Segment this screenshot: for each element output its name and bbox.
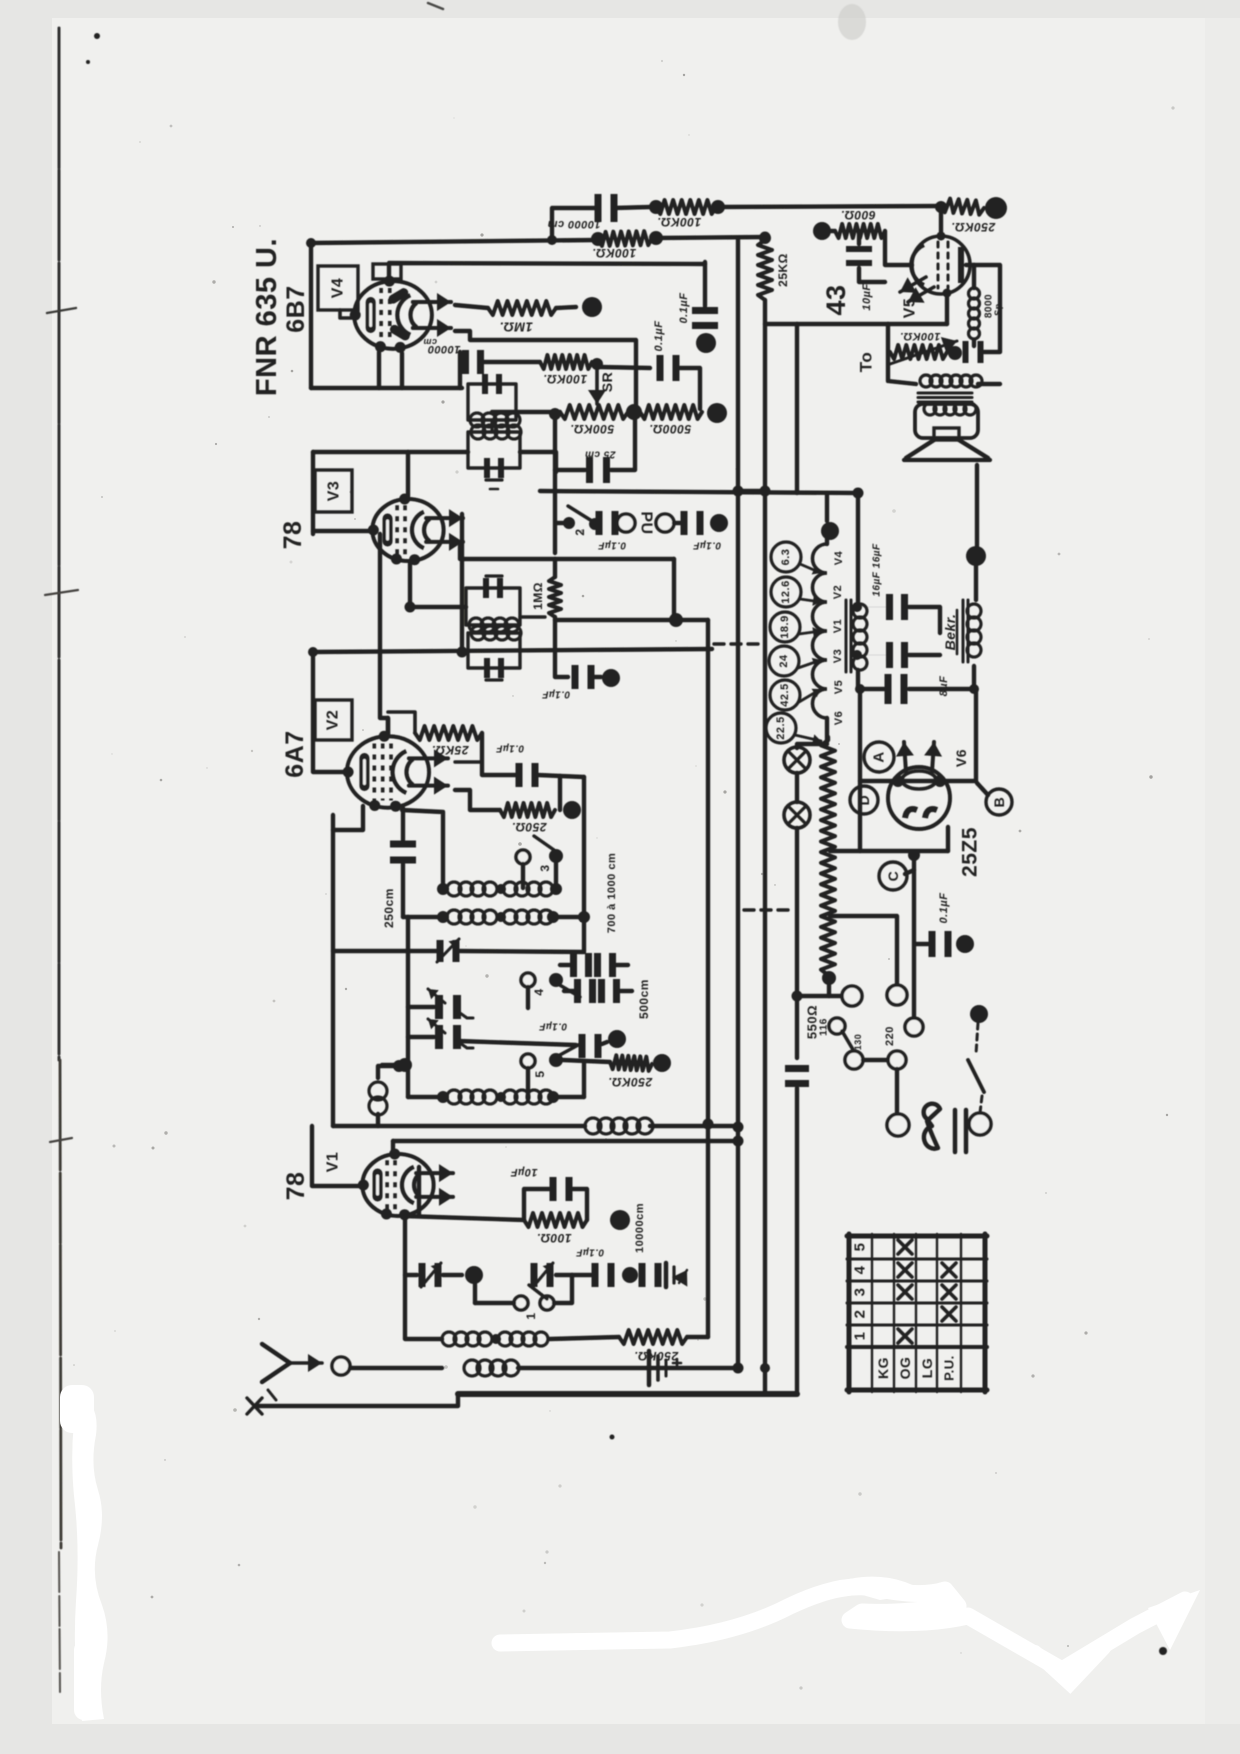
wire antenna row (350, 1360, 738, 1376)
resistor 250KΩ (osc grid) (563, 1055, 652, 1071)
svg-text:V2: V2 (832, 585, 844, 599)
wire heater feed (797, 324, 827, 521)
oscillator coil row 2 (403, 864, 590, 924)
label 250KΩ (top right) (951, 220, 996, 234)
voltage selector contact 220 (884, 1026, 906, 1069)
resistor 5000Ω (640, 405, 702, 419)
wire lamp link (795, 773, 799, 996)
wire selector link (863, 1058, 888, 1062)
wire lamps branch (797, 744, 827, 748)
wire H3 link (738, 489, 765, 493)
label 8µF (938, 676, 950, 697)
resistor 25KΩ (screen) (758, 232, 772, 300)
white-out squiggle (500, 1577, 1200, 1684)
svg-text:1MΩ: 1MΩ (531, 582, 545, 610)
svg-text:10µF: 10µF (861, 283, 873, 310)
svg-text:cm: cm (423, 337, 437, 347)
wire oscillator feed (582, 777, 586, 918)
wire V3 cathode (313, 529, 375, 533)
svg-text:3: 3 (852, 1288, 869, 1297)
terminal dot (AF) (602, 669, 620, 687)
svg-text:0.1µF: 0.1µF (575, 1247, 604, 1258)
label 250KΩ (antenna) (634, 1349, 679, 1363)
resistor 100KΩ (V4 grid) (540, 355, 603, 370)
svg-text:100KΩ.: 100KΩ. (900, 330, 941, 342)
voltage circle 12.6 (771, 577, 821, 607)
label 25cm (585, 449, 617, 460)
capacitor 10000cm (V4 grid) (462, 350, 540, 374)
table X marks (898, 1240, 956, 1343)
voltage selector contact 130 (845, 1034, 863, 1069)
switch 1 (475, 1275, 572, 1320)
V3 loop wire (311, 452, 315, 534)
capacitor 0.1µF (detector out) (692, 262, 718, 329)
switch 2 (gramophone) (556, 506, 592, 536)
wire selector down (887, 1069, 909, 1136)
labels 0.1µF 0.1µF (detector) (653, 293, 690, 352)
V3 label box (315, 470, 352, 512)
svg-text:1MΩ.: 1MΩ. (499, 320, 533, 335)
resistor 1MΩ (V4 plate) (455, 301, 576, 315)
svg-text:D: D (856, 795, 872, 806)
svg-text:250Ω.: 250Ω. (511, 820, 547, 834)
capacitor 0.1µF (AVC line) (600, 355, 700, 409)
svg-text:6.3: 6.3 (780, 549, 792, 566)
wire V1 grid (393, 1141, 738, 1152)
label 25KΩ (screen) (776, 253, 790, 287)
svg-text:C: C (885, 871, 901, 882)
svg-text:250KΩ.: 250KΩ. (951, 220, 996, 234)
svg-text:B: B (991, 797, 1007, 808)
terminal dot (osc pad) (608, 1030, 626, 1048)
wire V3 bottom pin (410, 563, 466, 607)
label 10µF (43) (861, 283, 873, 310)
svg-text:78: 78 (282, 1172, 310, 1201)
svg-text:116: 116 (819, 1018, 830, 1036)
wire grid row (458, 352, 462, 388)
resistor 100KΩ (top bus) (649, 200, 941, 214)
svg-text:25KΩ: 25KΩ (776, 253, 790, 287)
svg-text:25KΩ.: 25KΩ. (431, 743, 469, 757)
wire rectifier box right (974, 689, 978, 781)
antenna terminal (332, 1357, 350, 1375)
label 500cm (637, 979, 651, 1019)
speaker frame (915, 404, 978, 440)
table label KG (875, 1357, 891, 1379)
capacitor 0.1µF (mains) (915, 931, 974, 957)
capacitor 0.1µF (PU left) (596, 511, 619, 535)
svg-text:V1: V1 (832, 619, 844, 633)
label 250cm (382, 888, 396, 928)
variable capacitor gang b (408, 1019, 473, 1049)
tube V3 78 (368, 493, 463, 565)
resistor 550Ω ballast (821, 737, 836, 985)
electrolytic 16µF a (858, 594, 940, 633)
svg-text:550Ω: 550Ω (805, 1005, 820, 1039)
svg-text:KG: KG (875, 1357, 891, 1379)
label Bekr. (942, 610, 958, 654)
svg-text:V5: V5 (833, 680, 845, 694)
switch 5 (521, 1044, 580, 1097)
wire sw1 left drop (473, 1284, 477, 1303)
svg-text:100Ω.: 100Ω. (536, 1231, 571, 1245)
tube type label 43 (821, 284, 851, 315)
field coil Bekr (963, 600, 981, 662)
wire V3 anode arrow to bus (460, 514, 464, 652)
dial lamp 1 (784, 747, 810, 773)
potentiometer arrow SR (588, 370, 615, 404)
svg-text:0.1µF: 0.1µF (653, 321, 665, 352)
V4 grid cap box (373, 264, 401, 279)
band switch table grid (847, 1234, 987, 1392)
wire PU row / heater feed rail (540, 491, 858, 493)
label 600Ω (840, 208, 875, 222)
capacitor 10000cm (top) (552, 194, 650, 240)
label 100Ω (536, 1231, 571, 1245)
circled letter A (864, 742, 894, 772)
label 0.1µF (V1) (575, 1247, 604, 1258)
terminal dot (antenna trim) (465, 1266, 483, 1284)
svg-text:4: 4 (532, 988, 546, 995)
svg-text:2: 2 (573, 528, 587, 535)
terminal circle PU a (617, 514, 635, 532)
variable capacitor gang a (408, 989, 473, 1019)
junction dot detector (669, 613, 683, 627)
voltage circle 18.9 (770, 612, 821, 642)
wire 43 plate (966, 265, 1000, 352)
oscillator coil row 3 (408, 1062, 584, 1104)
wire V1 cathode row (404, 1216, 524, 1220)
svg-text:8µF: 8µF (938, 676, 950, 697)
label 0.1µF (AF) (541, 689, 570, 700)
ground (antenna) (649, 1351, 681, 1385)
wire selector up (905, 1018, 923, 1036)
labels 16µF 16µF (872, 543, 883, 597)
capacitor 0.1µF (osc) (516, 763, 585, 810)
svg-text:4: 4 (852, 1265, 869, 1274)
table label P.U. (942, 1355, 957, 1381)
svg-text:V2: V2 (325, 710, 342, 731)
wire V2 anode arrow (455, 760, 482, 763)
selector blade (842, 1031, 855, 1053)
svg-text:10µF: 10µF (510, 1166, 537, 1178)
wire screen row (765, 294, 947, 324)
output transformer To (918, 375, 1000, 415)
svg-text:5000Ω.: 5000Ω. (649, 422, 691, 436)
dashed wire mark a (714, 642, 762, 645)
heater label V4 (833, 550, 845, 565)
svg-text:V6: V6 (833, 711, 845, 725)
antenna (262, 1344, 322, 1400)
wire 25Z5 to B (905, 783, 988, 874)
label 700 à 1000 cm (606, 853, 618, 934)
svg-text:18.9: 18.9 (779, 615, 791, 638)
filter choke (846, 493, 884, 689)
label 1MΩ (499, 320, 533, 335)
label 500KΩ (570, 422, 614, 436)
wire V2 top pin (386, 718, 390, 734)
svg-text:0.1µF: 0.1µF (678, 293, 690, 324)
svg-text:12.6: 12.6 (780, 580, 792, 603)
wire V2 pin down a (333, 806, 363, 830)
label 10000 cm (top) (547, 218, 601, 230)
wire V1 bottom pin (405, 1215, 442, 1339)
wire selector feed (797, 978, 862, 1006)
terminal dot heater top (821, 522, 839, 540)
wire L7 right bus (706, 620, 710, 1337)
capacitor 250cm (390, 808, 416, 864)
wire detector box (455, 331, 636, 408)
svg-text:V5: V5 (902, 298, 919, 319)
stray dot a (610, 1435, 1168, 1656)
table row numbers (852, 1243, 869, 1341)
table label OG (897, 1357, 913, 1380)
svg-text:10000cm: 10000cm (634, 1203, 646, 1253)
label 0.1µF (mains) (938, 893, 950, 924)
wire V4 top pin (389, 263, 705, 280)
svg-text:220: 220 (884, 1026, 896, 1046)
label 100KΩ (tone) (900, 330, 941, 342)
wire V3 cathode arrow row (460, 546, 674, 559)
small coupling coil (369, 1060, 405, 1126)
wire L3 V3-V2 (380, 534, 388, 734)
V1 label (325, 1152, 342, 1173)
stray smudge top (838, 4, 866, 40)
tube V2 6A7 (343, 731, 448, 812)
wire rectifier cathode box (908, 827, 948, 1018)
svg-text:V4: V4 (833, 550, 845, 565)
label 10000cm (V1) (634, 1203, 646, 1253)
antenna coil row (442, 1332, 619, 1346)
voltage selector contact 116 (819, 1018, 846, 1036)
heater label V5 (833, 680, 845, 694)
label 10µF (V1) (510, 1166, 537, 1178)
wire V4 bottom pins (311, 352, 462, 388)
heater label V6 (833, 711, 845, 725)
terminal circle PU b (656, 514, 674, 532)
tube type label 78 (V1) (282, 1172, 310, 1201)
label 100KΩ (AVC) (592, 246, 636, 260)
svg-text:SR: SR (599, 372, 615, 392)
label 550Ω (805, 1005, 820, 1039)
wire PU left stub (549, 408, 561, 553)
heater chain bumps (813, 538, 828, 742)
mains switch (968, 1005, 991, 1135)
wire V1 anode arrows join (417, 1167, 421, 1216)
svg-text:0.1µF: 0.1µF (597, 540, 626, 551)
svg-text:0.1µF: 0.1µF (538, 1021, 567, 1032)
oscillator coil row 1 (402, 810, 562, 896)
svg-text:FNR 635 U.: FNR 635 U. (251, 238, 283, 396)
trimmer capacitor (osc) (333, 918, 584, 962)
label 5000Ω (649, 422, 691, 436)
svg-text:A: A (871, 751, 888, 762)
wire tap a (830, 849, 948, 853)
capacitor 10µF (43 bias) (846, 231, 885, 282)
svg-text:Sp.: Sp. (993, 300, 1003, 316)
tube V4 6B7 (350, 276, 451, 353)
wire osc col a (382, 917, 412, 1097)
svg-text:43: 43 (821, 284, 851, 315)
svg-text:700 à 1000 cm: 700 à 1000 cm (606, 853, 618, 934)
tube type label 6A7 (281, 730, 309, 777)
capacitor 10µF (V1 cathode) (524, 1177, 587, 1220)
wire To line (888, 324, 916, 384)
wire L4 bus (736, 238, 740, 1368)
resistor 250KΩ (top right) (941, 199, 984, 236)
wire antenna lower prong (258, 1394, 458, 1406)
dashed wire mark b (744, 908, 792, 911)
svg-text:To: To (857, 352, 876, 373)
table label LG (919, 1358, 935, 1378)
resistor 250Ω (500, 803, 555, 817)
svg-text:0.1µF: 0.1µF (938, 893, 950, 924)
label 0.1µF (PU left) (597, 540, 626, 551)
V2 top wire (313, 649, 712, 652)
svg-text:500cm: 500cm (637, 979, 651, 1019)
padder capacitor block 500cm (560, 953, 632, 1003)
svg-text:6B7: 6B7 (282, 285, 310, 332)
switch 3 (516, 836, 563, 888)
heater label V1 (832, 619, 844, 633)
junction dot (43 grid) (935, 201, 947, 213)
svg-text:250cm: 250cm (382, 888, 396, 928)
label 0.1µF (osc pad) (538, 1021, 567, 1032)
V1 loop wire (312, 1126, 366, 1186)
svg-text:78: 78 (279, 521, 307, 550)
label 0.1µF (PU right) (692, 540, 721, 551)
terminal dot (top right) (985, 197, 1007, 219)
wire V2 cathode arrow (455, 790, 500, 810)
capacitor 0.1µF (AF coupling) (555, 665, 601, 689)
wire detector row (555, 618, 708, 622)
svg-text:V6: V6 (953, 749, 969, 767)
terminal dot (250Ω) (563, 801, 581, 819)
svg-text:100KΩ.: 100KΩ. (592, 246, 636, 260)
IF transformer tuned circuit 3 (466, 576, 520, 632)
scan corner dot (86, 3, 443, 64)
svg-text:5: 5 (852, 1243, 869, 1252)
speaker cone (904, 440, 990, 460)
resistor 250KΩ (antenna) (619, 1330, 708, 1344)
wire V4 box to tube (340, 310, 356, 318)
svg-text:V3: V3 (832, 649, 844, 663)
svg-text:Bekr.: Bekr. (942, 614, 958, 651)
capacitor (bandset) (531, 1263, 554, 1287)
resistor 100KΩ (tone) (890, 337, 957, 364)
circled letter B (986, 789, 1012, 815)
mains plug pins (955, 1110, 966, 1152)
svg-text:3: 3 (538, 864, 552, 871)
svg-text:LG: LG (919, 1358, 935, 1378)
IF transformer tuned circuit 1 (468, 374, 520, 432)
circled letter D (850, 786, 878, 814)
resistor 100Ω (524, 1213, 587, 1227)
wire tc3 right (520, 615, 545, 618)
white-out blob left (60, 1385, 108, 1721)
V4 grid-return loop wire (311, 240, 597, 388)
svg-text:2: 2 (852, 1310, 869, 1319)
capacitor 0.1µF (osc pad) (459, 1034, 607, 1058)
wire H4 bottom of osc (333, 1118, 738, 1134)
label V5 (902, 298, 919, 319)
resistor 100KΩ (AVC) (591, 231, 766, 246)
tube V5 43 (900, 232, 970, 303)
wire rectifier box left (858, 689, 862, 851)
svg-text:24: 24 (778, 654, 790, 668)
capacitor 8µF (885, 666, 975, 704)
svg-text:250KΩ.: 250KΩ. (608, 1075, 653, 1089)
terminal dot (5000Ω) (707, 403, 727, 423)
tube V1 78 (358, 1148, 453, 1220)
label 8000 (984, 294, 1004, 318)
V2 loop wire (313, 652, 350, 772)
svg-text:6A7: 6A7 (281, 730, 309, 777)
tube type label 78 (V3) (279, 521, 307, 550)
svg-text:PU: PU (638, 511, 655, 534)
svg-text:1: 1 (852, 1332, 869, 1341)
capacitor (tone) (963, 341, 984, 363)
svg-text:5: 5 (533, 1070, 547, 1077)
voltage circle 6.3 (771, 542, 821, 574)
svg-text:130: 130 (853, 1034, 863, 1051)
field coil 8000 (969, 265, 980, 346)
label To (857, 352, 876, 373)
wire tap b (830, 916, 897, 985)
terminal dot (100Ω) (610, 1210, 630, 1230)
terminal dot Bekr (966, 465, 986, 600)
scan border line (45, 28, 78, 1692)
label 1MΩ (diode load) (531, 582, 545, 610)
wire rectifier plate line (860, 775, 976, 787)
IF transformer tuned circuit 4 (468, 626, 521, 680)
wire V3 top pin (406, 452, 410, 497)
resistor 25KΩ (osc anode) (388, 712, 516, 775)
voltage circle 42.5 (770, 680, 821, 710)
label 25Z5 (959, 827, 982, 877)
svg-text:V4: V4 (330, 278, 347, 299)
antenna series capacitors (556, 1263, 687, 1287)
tube V6 25Z5 (888, 742, 950, 829)
label V6 (tube) (953, 749, 969, 767)
terminal dot PU (710, 514, 728, 532)
svg-text:P.U.: P.U. (942, 1355, 957, 1381)
label 10000 cm (V4 grid) (423, 337, 461, 355)
circled letter C (879, 862, 907, 890)
dial lamp 2 (784, 802, 810, 828)
svg-text:25Z5: 25Z5 (959, 827, 982, 877)
svg-text:42.5: 42.5 (779, 683, 791, 706)
title FNR 635 U. (251, 238, 283, 396)
svg-text:V3: V3 (326, 481, 343, 502)
resistor 1MΩ (diode load) (549, 559, 561, 676)
antenna earth pin (247, 1398, 262, 1414)
mains plug (924, 1104, 940, 1149)
svg-text:22.5: 22.5 (775, 716, 787, 739)
terminal dot (0.1µF) (696, 333, 716, 353)
wire sw2 column (672, 559, 676, 620)
svg-text:0.1µF: 0.1µF (495, 743, 524, 754)
svg-text:10000 cm: 10000 cm (547, 218, 601, 230)
svg-text:100KΩ.: 100KΩ. (657, 215, 701, 229)
wire tc2 to V3 row (313, 452, 556, 472)
label 250KΩ (osc grid) (608, 1075, 653, 1089)
capacitor 0.1µF (PU right) (674, 511, 704, 535)
electrolytic 16µF b (858, 642, 940, 668)
junction dot (sw2) (589, 518, 601, 530)
label 250Ω (511, 820, 547, 834)
label 0.1µF (osc) (495, 743, 524, 754)
